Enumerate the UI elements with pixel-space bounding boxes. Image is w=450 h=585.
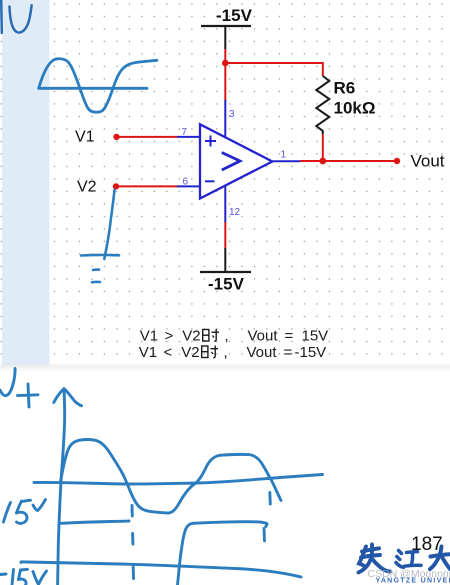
svg-text:V2: V2 bbox=[77, 179, 97, 196]
svg-text:10kΩ: 10kΩ bbox=[334, 99, 376, 118]
svg-text:V2: V2 bbox=[182, 327, 200, 344]
hand-drawn U annotation (top left) bbox=[1, 0, 31, 33]
svg-text:=: = bbox=[284, 344, 293, 361]
svg-text:12: 12 bbox=[229, 207, 241, 218]
svg-text:,: , bbox=[225, 327, 229, 344]
node: Vout terminal bbox=[394, 158, 400, 164]
hand-drawn input sine sketch bbox=[39, 59, 157, 112]
resistor R6 bbox=[316, 76, 375, 134]
wire: pin 12 black segment bbox=[224, 248, 226, 272]
label U+ bbox=[0, 369, 15, 396]
wire: V1 to pin 7 (red) bbox=[117, 136, 178, 138]
svg-text:-15V: -15V bbox=[295, 344, 327, 361]
svg-text:V2: V2 bbox=[181, 344, 199, 361]
square wave high segment 2 bbox=[193, 522, 267, 527]
ground (hand-drawn) bbox=[81, 255, 119, 282]
wire: V2 to pin 6 (red) bbox=[116, 185, 177, 187]
svg-text:15V: 15V bbox=[302, 327, 329, 344]
power symbol -15V (bottom) bbox=[200, 272, 251, 294]
solid transition 2 bbox=[178, 523, 194, 585]
wire: pin 6 stub (blue) bbox=[177, 185, 200, 187]
svg-text:-15V: -15V bbox=[216, 6, 253, 25]
hand-drawn wire V2 to ground bbox=[104, 190, 114, 259]
wire: pin 3 stub (blue) bbox=[224, 100, 226, 137]
svg-text:=: = bbox=[285, 327, 294, 344]
wire: R6 bottom to output net bbox=[322, 134, 324, 161]
wire: pin 12 red segment bbox=[224, 222, 226, 248]
wire: pin 12 stub (blue) bbox=[224, 186, 226, 222]
wire: top rail black segment bbox=[224, 26, 226, 49]
node V1 terminal bbox=[113, 134, 119, 140]
svg-text:>: > bbox=[165, 327, 174, 344]
label 15V (hand) bbox=[4, 503, 11, 523]
svg-text:<: < bbox=[164, 344, 173, 361]
svg-text:YANGTZE UNIVER: YANGTZE UNIVER bbox=[376, 578, 450, 585]
wire: junction to R6 top bbox=[225, 63, 322, 76]
svg-text:7: 7 bbox=[182, 127, 188, 138]
sine wave bbox=[61, 439, 281, 513]
wire: junction down to op-amp pin 3 (red part) bbox=[224, 63, 226, 100]
svg-text:V1: V1 bbox=[75, 129, 95, 146]
wire: pin 7 stub (blue) bbox=[177, 136, 200, 138]
op-amp U1 (comparator) bbox=[200, 124, 272, 198]
svg-text:6: 6 bbox=[183, 177, 189, 188]
-15V level line bbox=[21, 562, 301, 577]
vertical axis with arrow bbox=[58, 389, 65, 585]
dashed transition 1 bbox=[131, 506, 134, 517]
svg-text:V1: V1 bbox=[140, 327, 158, 344]
svg-text:3: 3 bbox=[229, 109, 235, 120]
university logo: calligraphy 长江大 bbox=[359, 545, 450, 573]
svg-text:Vout: Vout bbox=[247, 344, 278, 361]
square wave high segment 1 bbox=[62, 521, 130, 523]
caption line 1: V1 > V2 时, Vout = 15V bbox=[140, 327, 328, 344]
svg-text:-15V: -15V bbox=[208, 275, 245, 294]
hand-drawn waveform plot (bottom sketch) bbox=[0, 369, 323, 585]
wire: top rail red segment to junction bbox=[224, 49, 226, 63]
wire: output net (red) bbox=[300, 160, 397, 162]
wire: output stub (blue) bbox=[272, 160, 300, 162]
node: output junction bbox=[319, 158, 326, 165]
svg-text:Vout: Vout bbox=[248, 327, 279, 344]
svg-text:Vout: Vout bbox=[411, 152, 445, 171]
power symbol -15V (top) bbox=[201, 6, 253, 26]
svg-text:V1: V1 bbox=[139, 344, 157, 361]
dashed transition 3 bbox=[268, 493, 271, 505]
svg-text:R6: R6 bbox=[334, 79, 356, 98]
caption line 2: V1 < V2 时, Vout = -15V bbox=[139, 344, 326, 361]
horizontal axis bbox=[34, 475, 323, 485]
label -15V (hand) bbox=[1, 573, 7, 576]
node V2 terminal bbox=[113, 183, 119, 189]
svg-text:1: 1 bbox=[281, 150, 287, 161]
svg-text:,: , bbox=[224, 344, 228, 361]
node: top junction bbox=[222, 60, 229, 67]
